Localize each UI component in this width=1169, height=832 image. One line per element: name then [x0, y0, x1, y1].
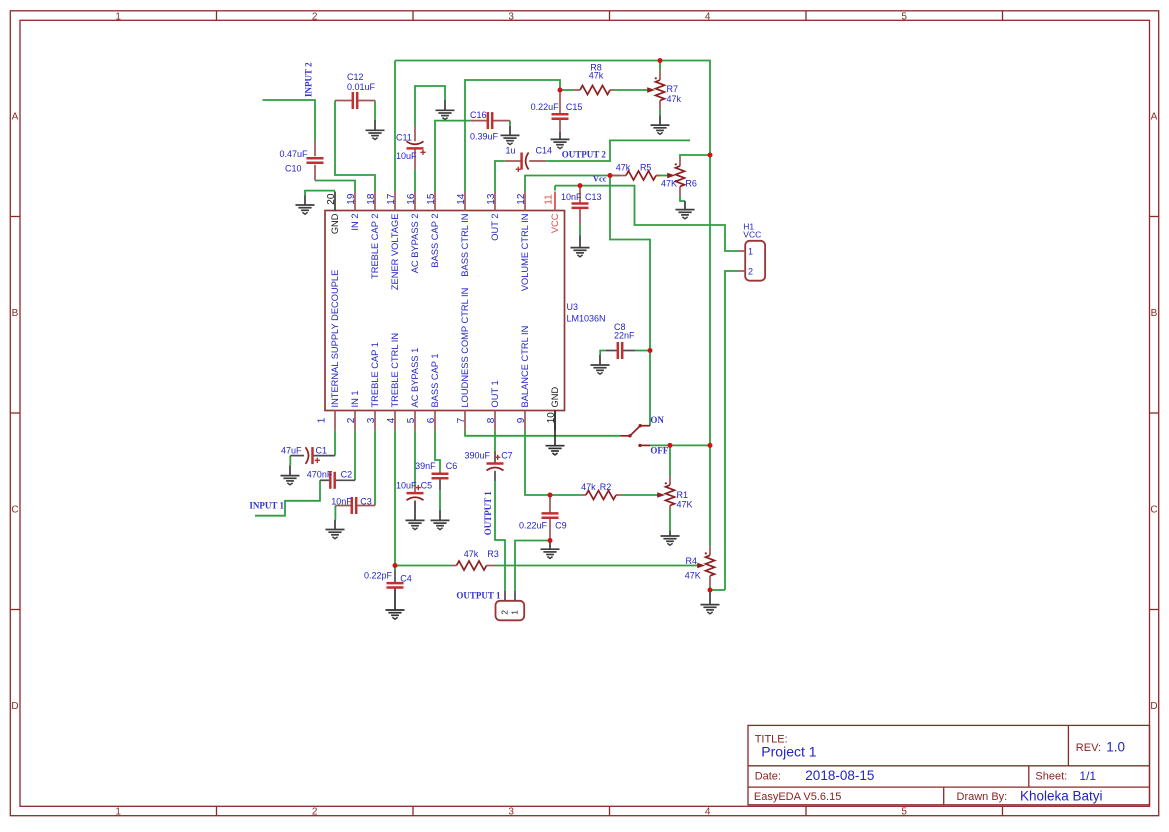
svg-text:47k: 47k: [464, 549, 479, 559]
svg-text:390uF: 390uF: [465, 450, 491, 460]
wire R7 bottom: [659, 109, 661, 115]
wire R2 to R1 wiper: [622, 494, 659, 496]
svg-text:7: 7: [456, 417, 467, 423]
capacitor C3 10nF: [331, 497, 375, 515]
svg-text:B: B: [12, 308, 19, 319]
svg-text:D: D: [11, 701, 18, 712]
wire pin 1 to C1: [334, 430, 336, 455]
svg-text:ON: ON: [650, 415, 664, 425]
svg-text:C: C: [1150, 505, 1157, 516]
wire C1 left to ground: [289, 456, 291, 466]
svg-text:39nF: 39nF: [415, 461, 436, 471]
svg-text:10nF: 10nF: [331, 497, 352, 507]
pin 19 IN 2 (top): [346, 192, 360, 231]
svg-text:R7: R7: [667, 84, 679, 94]
wire Vcc vertical to ON contact: [610, 176, 650, 426]
svg-text:AC BYPASS 1: AC BYPASS 1: [410, 348, 420, 408]
potentiometer R7 47k: [647, 70, 681, 109]
capacitor C7 390uF: [465, 450, 513, 481]
svg-text:C1: C1: [316, 446, 328, 456]
svg-text:BASS CTRL IN: BASS CTRL IN: [460, 214, 470, 277]
svg-text:AC BYPASS 2: AC BYPASS 2: [410, 214, 420, 274]
svg-text:47k: 47k: [581, 482, 596, 492]
switch SPDT ON/OFF: [620, 424, 650, 447]
junction C9 bottom: [548, 538, 553, 543]
svg-text:4: 4: [705, 807, 711, 818]
pin 7 LOUDNESS COMP CTRL IN (bottom): [456, 288, 470, 431]
ground: [571, 236, 590, 257]
svg-text:C6: C6: [446, 461, 458, 471]
wire R1 top: [669, 445, 671, 476]
ground: [651, 115, 670, 134]
svg-text:LM1036N: LM1036N: [567, 313, 606, 323]
wire OUTPUT 2 net: [546, 140, 690, 161]
wire C11 bottom to pin 16: [414, 169, 416, 191]
svg-text:C5: C5: [421, 481, 433, 491]
svg-text:47K: 47K: [677, 500, 693, 510]
svg-text:470nF: 470nF: [307, 469, 333, 479]
wire R8 to R7 wiper: [560, 89, 574, 91]
svg-text:OUTPUT 2: OUTPUT 2: [562, 149, 607, 159]
pin 4 TREBLE CTRL IN (bottom): [386, 333, 400, 430]
wire C9 node to connector pin 1: [515, 541, 550, 591]
ground: [541, 541, 560, 559]
wire pin 11 up: [554, 186, 556, 191]
svg-text:C2: C2: [341, 469, 353, 479]
wire C3 left to ground: [334, 506, 336, 520]
svg-text:OFF: OFF: [650, 446, 668, 456]
title block: [748, 725, 1150, 804]
pin 2 IN 1 (bottom): [346, 390, 360, 430]
wire zener top rail: [395, 61, 710, 547]
svg-text:14: 14: [456, 193, 467, 205]
svg-text:GND: GND: [330, 213, 340, 234]
svg-text:OUT 2: OUT 2: [490, 214, 500, 241]
wire pin 7 to switch: [465, 430, 620, 436]
wire INPUT 1 to C2: [255, 480, 320, 515]
wire R3 left: [395, 565, 452, 567]
svg-text:10uF: 10uF: [396, 481, 417, 491]
svg-text:2: 2: [312, 807, 318, 818]
svg-text:1: 1: [115, 12, 121, 23]
wire pin 20 to ground: [305, 191, 335, 196]
svg-text:IN 1: IN 1: [350, 390, 360, 407]
capacitor C16 0.39uF: [470, 110, 510, 141]
svg-text:VCC: VCC: [550, 213, 560, 233]
pin 20 GND (top): [326, 192, 340, 235]
ground: [661, 530, 680, 545]
svg-text:R4: R4: [685, 556, 697, 566]
potentiometer R1 47K: [657, 477, 692, 510]
svg-text:Date:: Date:: [755, 771, 781, 783]
svg-text:4: 4: [386, 417, 397, 423]
junction OFF rail: [708, 443, 713, 448]
pin 13 OUT 2 (top): [486, 192, 500, 241]
svg-text:5: 5: [901, 807, 907, 818]
wire pin 13 to C14: [495, 161, 505, 192]
wire C11 top to ground: [415, 86, 445, 126]
wire pin 3 to C3: [374, 430, 376, 505]
ground: [326, 520, 345, 539]
ground: [501, 126, 520, 145]
svg-text:TREBLE CAP 2: TREBLE CAP 2: [370, 214, 380, 279]
svg-text:BASS CAP 1: BASS CAP 1: [430, 353, 440, 407]
svg-text:A: A: [1151, 112, 1158, 123]
svg-text:47K: 47K: [685, 571, 701, 581]
resistor R3 47k: [452, 549, 499, 570]
ground: [551, 132, 570, 149]
pin 8 OUT 1 (bottom): [486, 380, 500, 430]
svg-text:1u: 1u: [506, 146, 516, 156]
wire pin 12 to Vcc node: [525, 176, 620, 192]
svg-text:3: 3: [508, 807, 514, 818]
resistor R2 47k: [581, 482, 622, 500]
svg-text:12: 12: [516, 193, 527, 205]
wire R8 right to R7 wiper: [615, 89, 649, 91]
svg-text:2: 2: [312, 12, 318, 23]
svg-text:0.22pF: 0.22pF: [364, 571, 393, 581]
svg-text:15: 15: [426, 193, 437, 205]
svg-text:C4: C4: [400, 574, 412, 584]
capacitor C1 47uF: [281, 446, 335, 465]
ground: [546, 411, 565, 455]
svg-text:VOLUME CTRL IN: VOLUME CTRL IN: [520, 214, 530, 292]
svg-text:IN 2: IN 2: [350, 214, 360, 231]
svg-text:BALANCE CTRL IN: BALANCE CTRL IN: [520, 326, 530, 408]
svg-text:1.0: 1.0: [1106, 740, 1125, 755]
capacitor C10 0.47uF: [279, 141, 323, 181]
connector H1 VCC: [738, 222, 765, 281]
svg-text:LOUDNESS COMP CTRL IN: LOUDNESS COMP CTRL IN: [460, 288, 470, 408]
svg-text:47uF: 47uF: [281, 446, 302, 456]
svg-text:9: 9: [516, 417, 527, 423]
svg-text:B: B: [1151, 308, 1158, 319]
wire R5 to R6 wiper: [657, 175, 669, 177]
svg-text:OUT 1: OUT 1: [490, 380, 500, 407]
wire pin 9 to R2 node: [525, 430, 582, 495]
junction Vcc: [608, 173, 613, 178]
wire R6 bottom elbow: [680, 196, 685, 201]
svg-text:VCC: VCC: [743, 230, 761, 240]
svg-text:5: 5: [901, 12, 907, 23]
resistor R8 47k: [574, 63, 615, 95]
svg-text:0.47uF: 0.47uF: [279, 149, 308, 159]
pin 9 BALANCE CTRL IN (bottom): [516, 326, 530, 431]
wire R6 top: [680, 155, 710, 158]
wire C12 left to pin 18: [335, 101, 375, 192]
svg-text:C: C: [11, 505, 18, 516]
svg-text:6: 6: [426, 417, 437, 423]
svg-text:1: 1: [510, 610, 520, 615]
svg-text:C10: C10: [285, 164, 302, 174]
svg-text:C15: C15: [566, 102, 583, 112]
svg-text:C16: C16: [470, 110, 487, 120]
svg-text:Drawn By:: Drawn By:: [957, 791, 1008, 803]
svg-text:1: 1: [115, 807, 121, 818]
ground: [701, 590, 720, 614]
ground: [436, 100, 455, 120]
svg-text:GND: GND: [550, 387, 560, 408]
svg-text:C11: C11: [396, 132, 412, 142]
wire C13 to ground: [579, 225, 581, 236]
svg-text:0.01uF: 0.01uF: [347, 82, 376, 92]
svg-text:8: 8: [486, 417, 497, 423]
wire R3 to R4 wiper: [496, 565, 699, 567]
pin 11 VCC (top): [544, 192, 561, 234]
wire INPUT 2 stub to C10: [263, 100, 316, 141]
pin 1 INTERNAL SUPPLY DECOUPLE (bottom): [317, 270, 341, 431]
junction C8/Vcc: [648, 348, 653, 353]
junction R3/C4: [393, 563, 398, 568]
wire pin 14 to R8 node: [465, 80, 560, 192]
pin 14 BASS CTRL IN (top): [456, 192, 470, 277]
svg-text:13: 13: [486, 193, 497, 205]
ground: [386, 589, 405, 620]
ground: [366, 120, 385, 140]
pin 12 VOLUME CTRL IN (top): [516, 192, 530, 292]
capacitor C15 0.22uF: [531, 90, 583, 132]
svg-text:R5: R5: [640, 163, 652, 173]
svg-text:2018-08-15: 2018-08-15: [805, 768, 874, 783]
svg-text:A: A: [12, 112, 19, 123]
svg-text:C7: C7: [501, 450, 513, 460]
svg-text:2: 2: [346, 417, 357, 423]
svg-text:4: 4: [705, 12, 711, 23]
svg-text:Sheet:: Sheet:: [1035, 771, 1067, 783]
wire C16 right to ground: [509, 121, 511, 126]
ground: [591, 355, 610, 374]
capacitor C11 10uF: [396, 126, 426, 169]
capacitor C8 22nF: [606, 322, 635, 359]
svg-text:47k: 47k: [667, 94, 682, 104]
svg-text:2: 2: [748, 266, 753, 276]
svg-text:U3: U3: [567, 302, 579, 312]
wire C10 to pin 19: [315, 181, 355, 192]
ground: [431, 510, 450, 530]
wire pin 5 to C5: [414, 430, 416, 485]
ground: [281, 465, 300, 484]
capacitor C13 10nF: [561, 186, 602, 225]
svg-text:2: 2: [500, 610, 510, 615]
wire R4 bottom to H1 pin 2 net: [710, 585, 725, 590]
pin 17 ZENER VOLTAGE (top): [386, 192, 400, 291]
pin 16 AC BYPASS 2 (top): [406, 192, 420, 274]
svg-text:19: 19: [346, 193, 357, 205]
svg-text:R6: R6: [685, 179, 697, 189]
svg-text:1: 1: [317, 417, 328, 423]
wire C8 right to Vcc: [635, 350, 650, 352]
potentiometer R4 47K: [685, 546, 715, 585]
svg-text:OUTPUT 1: OUTPUT 1: [483, 491, 493, 536]
svg-text:INPUT 2: INPUT 2: [304, 62, 314, 97]
svg-text:TREBLE CTRL IN: TREBLE CTRL IN: [390, 333, 400, 408]
wire H1 pin 2 lead: [725, 271, 738, 590]
ground: [676, 201, 695, 219]
wire pin 15 to C16: [435, 121, 470, 192]
svg-text:OUTPUT 1: OUTPUT 1: [456, 591, 501, 601]
capacitor C6 39nF: [415, 461, 457, 490]
svg-text:INTERNAL SUPPLY DECOUPLE: INTERNAL SUPPLY DECOUPLE: [330, 270, 340, 408]
capacitor C14 1u: [505, 146, 552, 172]
svg-text:1/1: 1/1: [1079, 769, 1096, 783]
wire C7 to connector pin 2: [495, 481, 505, 590]
svg-text:11: 11: [544, 194, 555, 205]
capacitor C2 470nF: [307, 469, 355, 489]
wire pin 8 to C7: [494, 430, 496, 450]
svg-text:ZENER VOLTAGE: ZENER VOLTAGE: [390, 214, 400, 291]
svg-text:D: D: [1150, 701, 1157, 712]
wire pin 6 to C6: [435, 430, 440, 470]
wire R7 top stub: [659, 61, 661, 71]
svg-text:47K: 47K: [661, 179, 677, 189]
pin 10 GND (bottom): [546, 387, 560, 431]
capacitor C12 0.01uF: [335, 72, 376, 109]
op-amp U3 LM1036N body: [325, 211, 606, 411]
wire C12 right to ground: [374, 101, 376, 121]
svg-text:1: 1: [748, 246, 753, 256]
wire pin 2 to C2: [354, 430, 356, 480]
svg-text:BASS CAP 2: BASS CAP 2: [430, 214, 440, 268]
svg-text:0.22uF: 0.22uF: [531, 102, 560, 112]
svg-text:C13: C13: [585, 192, 602, 202]
pin 18 TREBLE CAP 2 (top): [366, 192, 380, 279]
svg-text:0.22uF: 0.22uF: [519, 521, 548, 531]
pin 15 BASS CAP 2 (top): [426, 192, 440, 268]
pin 6 BASS CAP 1 (bottom): [426, 353, 440, 430]
svg-text:22nF: 22nF: [614, 330, 635, 340]
potentiometer R6 47K: [661, 158, 697, 196]
capacitor C9 0.22uF: [519, 495, 567, 541]
svg-text:Project 1: Project 1: [761, 744, 816, 760]
svg-text:Kholeka Batyi: Kholeka Batyi: [1020, 788, 1103, 803]
svg-text:47k: 47k: [616, 163, 631, 173]
junction VCC/C13: [578, 183, 583, 188]
svg-text:5: 5: [406, 417, 417, 423]
svg-text:20: 20: [326, 193, 337, 205]
svg-text:REV:: REV:: [1076, 742, 1101, 754]
ground: [296, 196, 315, 215]
svg-text:EasyEDA V5.6.15: EasyEDA V5.6.15: [754, 791, 841, 803]
svg-text:R1: R1: [677, 490, 689, 500]
wire R1 bottom: [669, 509, 671, 530]
wire pin 17 up: [394, 61, 396, 192]
svg-text:0.39uF: 0.39uF: [470, 131, 499, 141]
svg-text:3: 3: [366, 417, 377, 423]
junction R7 top: [658, 58, 663, 63]
junction OFF/R1: [668, 443, 673, 448]
svg-text:10uF: 10uF: [396, 151, 417, 161]
wire pin 4 down to R3 node: [394, 430, 396, 570]
capacitor C5 10uF: [396, 481, 432, 502]
svg-text:R3: R3: [487, 549, 499, 559]
wire C6 to ground: [439, 490, 441, 510]
junction R8/C15: [558, 88, 563, 93]
svg-text:R2: R2: [600, 482, 612, 492]
wire C8 left elbow to ground: [600, 351, 605, 356]
junction R4 bottom: [708, 588, 713, 593]
svg-text:C3: C3: [360, 497, 372, 507]
svg-text:17: 17: [386, 193, 397, 205]
svg-text:INPUT 1: INPUT 1: [249, 501, 284, 511]
capacitor C4 0.22pF: [364, 570, 412, 596]
svg-text:18: 18: [366, 193, 377, 205]
svg-text:C12: C12: [347, 72, 364, 82]
svg-text:C9: C9: [555, 521, 567, 531]
svg-text:TREBLE CAP 1: TREBLE CAP 1: [370, 342, 380, 407]
svg-text:3: 3: [508, 12, 514, 23]
junction R2/C9: [548, 493, 553, 498]
wire OFF contact to R1 node: [650, 444, 710, 446]
svg-text:Vcc: Vcc: [593, 173, 607, 183]
wire VCC to H1 pin 1: [555, 186, 738, 251]
svg-text:47k: 47k: [589, 70, 604, 80]
junction R6 top: [708, 153, 713, 158]
svg-text:C14: C14: [536, 146, 553, 156]
svg-text:10nF: 10nF: [561, 192, 582, 202]
connector OUTPUT 1: [496, 590, 525, 620]
svg-text:16: 16: [406, 193, 417, 205]
resistor R5 47k: [611, 163, 660, 181]
ground: [406, 502, 425, 530]
pin 3 TREBLE CAP 1 (bottom): [366, 342, 380, 430]
pin 5 AC BYPASS 1 (bottom): [406, 348, 420, 431]
